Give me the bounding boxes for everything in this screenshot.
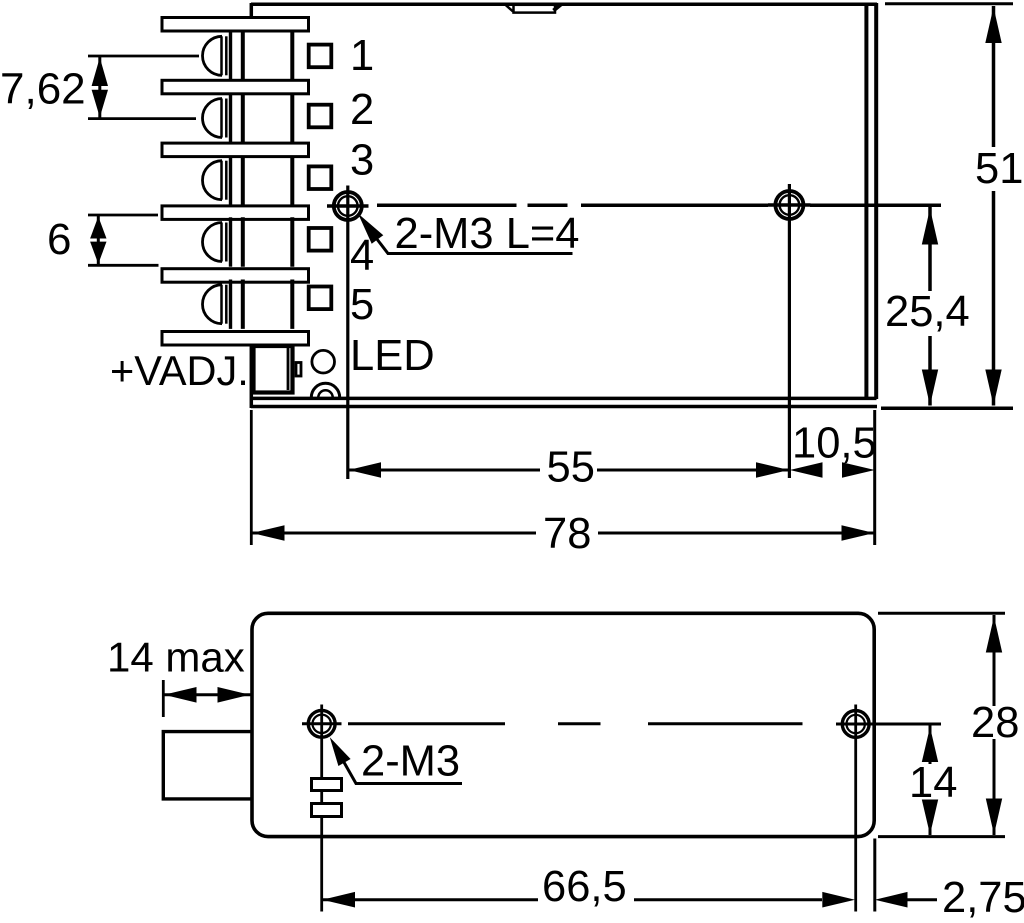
terminal block separator bar 2 [162,80,309,94]
top view: case bottom edge outer line [251,397,877,401]
terminal 2 square marker [309,105,332,128]
svg-text:51: 51 [975,145,1023,193]
svg-text:6: 6 [47,215,71,264]
screw terminal 3 (side view) [203,156,293,205]
dimension 6 extension lines [88,215,159,265]
svg-text:1: 1 [350,32,374,80]
top view: case left edge lower segment [250,344,254,408]
bottom extension line of bottom view [878,835,1005,838]
svg-text:78: 78 [543,510,591,558]
left extension line below case [250,410,253,545]
horizontal centre line between holes (dashed) [377,204,768,208]
dimension 51 top extension line [885,2,1013,5]
leader line for 2-M3 [341,757,462,784]
LED hole circle [312,350,335,373]
svg-text:25,4: 25,4 [885,288,970,336]
dimension 2,75 arrow and line [875,892,937,908]
hole 2 vertical extension line [788,184,791,478]
svg-text:LED: LED [350,332,435,380]
potentiometer +VADJ body [254,346,293,393]
grounding hole arcs on case bottom edge [311,383,339,397]
dimension 51 line and arrows [985,6,1001,406]
dimension 14 line and arrows [922,726,938,836]
dimension 14 max line and arrows [163,687,250,703]
terminal 1 square marker [309,45,332,68]
svg-text:66,5: 66,5 [542,863,627,911]
terminal block separator bar 4 [162,206,309,220]
svg-text:2,75: 2,75 [942,874,1024,922]
dimension 25,4 line and arrows [922,207,938,406]
hole 2 extension line to the right [876,723,941,726]
leader line for 2-M3 L=4 [370,230,573,254]
screw terminal 1 (side view) [203,31,293,80]
centre line extension to 25,4 dimension [810,204,941,208]
svg-text:2: 2 [350,86,374,134]
terminal block separator bar 5 [162,269,309,283]
top view: case top edge [251,2,877,6]
dimension 28 top extension line [878,612,1005,615]
svg-text:7,62: 7,62 [0,65,86,114]
terminal 3 square marker [309,166,332,189]
top view: case right edge inner line [864,3,868,400]
bottom view: case outline (rounded rectangle) [252,613,874,836]
solder pin 2 (bottom view) [312,804,342,817]
screw terminal 4 (side view) [203,217,293,266]
dimension 6 line and arrows [90,215,106,265]
dimension 7,62 line and arrows [92,56,108,119]
dimension 7,62 extension lines [88,56,199,119]
potentiometer side tab [296,363,301,377]
top view: case left edge upper segment [250,3,254,19]
case right extension line below (bottom view) [873,839,876,912]
leader arrow to hole 1 [358,214,383,244]
screw terminal 5 (side view) [203,280,293,329]
dimension 55 line and arrows [348,462,789,478]
leader arrow to hole 1 (bottom view) [330,737,351,766]
top view: cover notch at top edge [505,4,562,13]
svg-text:10,5: 10,5 [792,420,877,468]
bottom view centre line (dashed) [348,722,803,725]
solder pin 1 (bottom view) [312,779,342,791]
svg-text:14: 14 [909,759,957,807]
case right extension line below case [873,410,876,545]
dimension 14 max tick line [162,680,165,717]
terminal 4 square marker [309,228,332,251]
hole 1 vertical line / extension (bottom view) [320,705,323,912]
svg-text:14 max: 14 max [107,634,245,681]
mounting hole M3 #2 (top view) [768,191,811,219]
dimension 10,5 arrows [790,462,875,478]
hole 2 vertical extension line (bottom view) [854,705,857,912]
dimension 28 line and arrows [986,615,1002,835]
mounting hole M3 #1 (top view) [327,192,369,220]
svg-text:+VADJ.: +VADJ. [110,347,249,394]
terminal block separator bar 1 [162,18,309,32]
terminal 5 square marker [309,287,332,310]
svg-text:2-M3: 2-M3 [361,738,460,786]
top view: case bottom edge inner line [251,405,877,409]
svg-text:55: 55 [547,444,595,492]
svg-text:3: 3 [350,137,374,185]
dimension 66,5 line and arrows [322,892,855,908]
potentiometer slot line [287,348,290,390]
screw terminal 2 (side view) [203,93,293,142]
terminal block separator bar 3 [162,143,309,157]
bottom view: terminal block protrusion [163,732,252,799]
top view: case right edge outer line [874,3,878,399]
hole 1 vertical centerline / extension line [346,186,349,480]
svg-text:5: 5 [350,281,374,329]
dimension 78 line and arrows [251,525,874,541]
mounting hole M3 #2 (bottom view) [836,711,876,738]
svg-text:2-M3 L=4: 2-M3 L=4 [395,210,580,258]
terminal block separator bar 6 [162,332,309,346]
svg-text:28: 28 [971,699,1019,747]
mounting hole M3 #1 (bottom view) [302,710,342,737]
bottom-right extension line of top view [881,407,1013,411]
